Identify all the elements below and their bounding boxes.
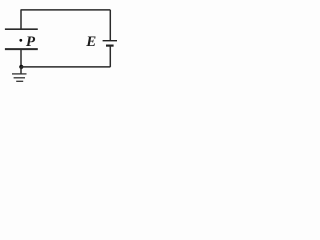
- capacitor bottom plate: [5, 48, 38, 50]
- svg-text:E: E: [85, 34, 96, 50]
- ground bar 3: [16, 80, 23, 82]
- capacitor top plate: [5, 28, 38, 30]
- node P dot: [19, 39, 22, 42]
- wire left vertical upper: [20, 10, 22, 30]
- ground stem: [20, 67, 22, 74]
- wire right vertical lower: [109, 46, 111, 67]
- battery E long plate: [103, 40, 117, 42]
- wire top: [21, 9, 111, 11]
- battery E short plate: [106, 44, 114, 46]
- svg-text:P: P: [26, 34, 36, 50]
- ground bar 1: [12, 73, 27, 75]
- ground bar 2: [14, 77, 25, 79]
- wire right vertical upper: [109, 10, 111, 41]
- junction dot: [19, 65, 23, 69]
- wire left vertical lower: [20, 49, 22, 67]
- wire bottom: [21, 66, 110, 68]
